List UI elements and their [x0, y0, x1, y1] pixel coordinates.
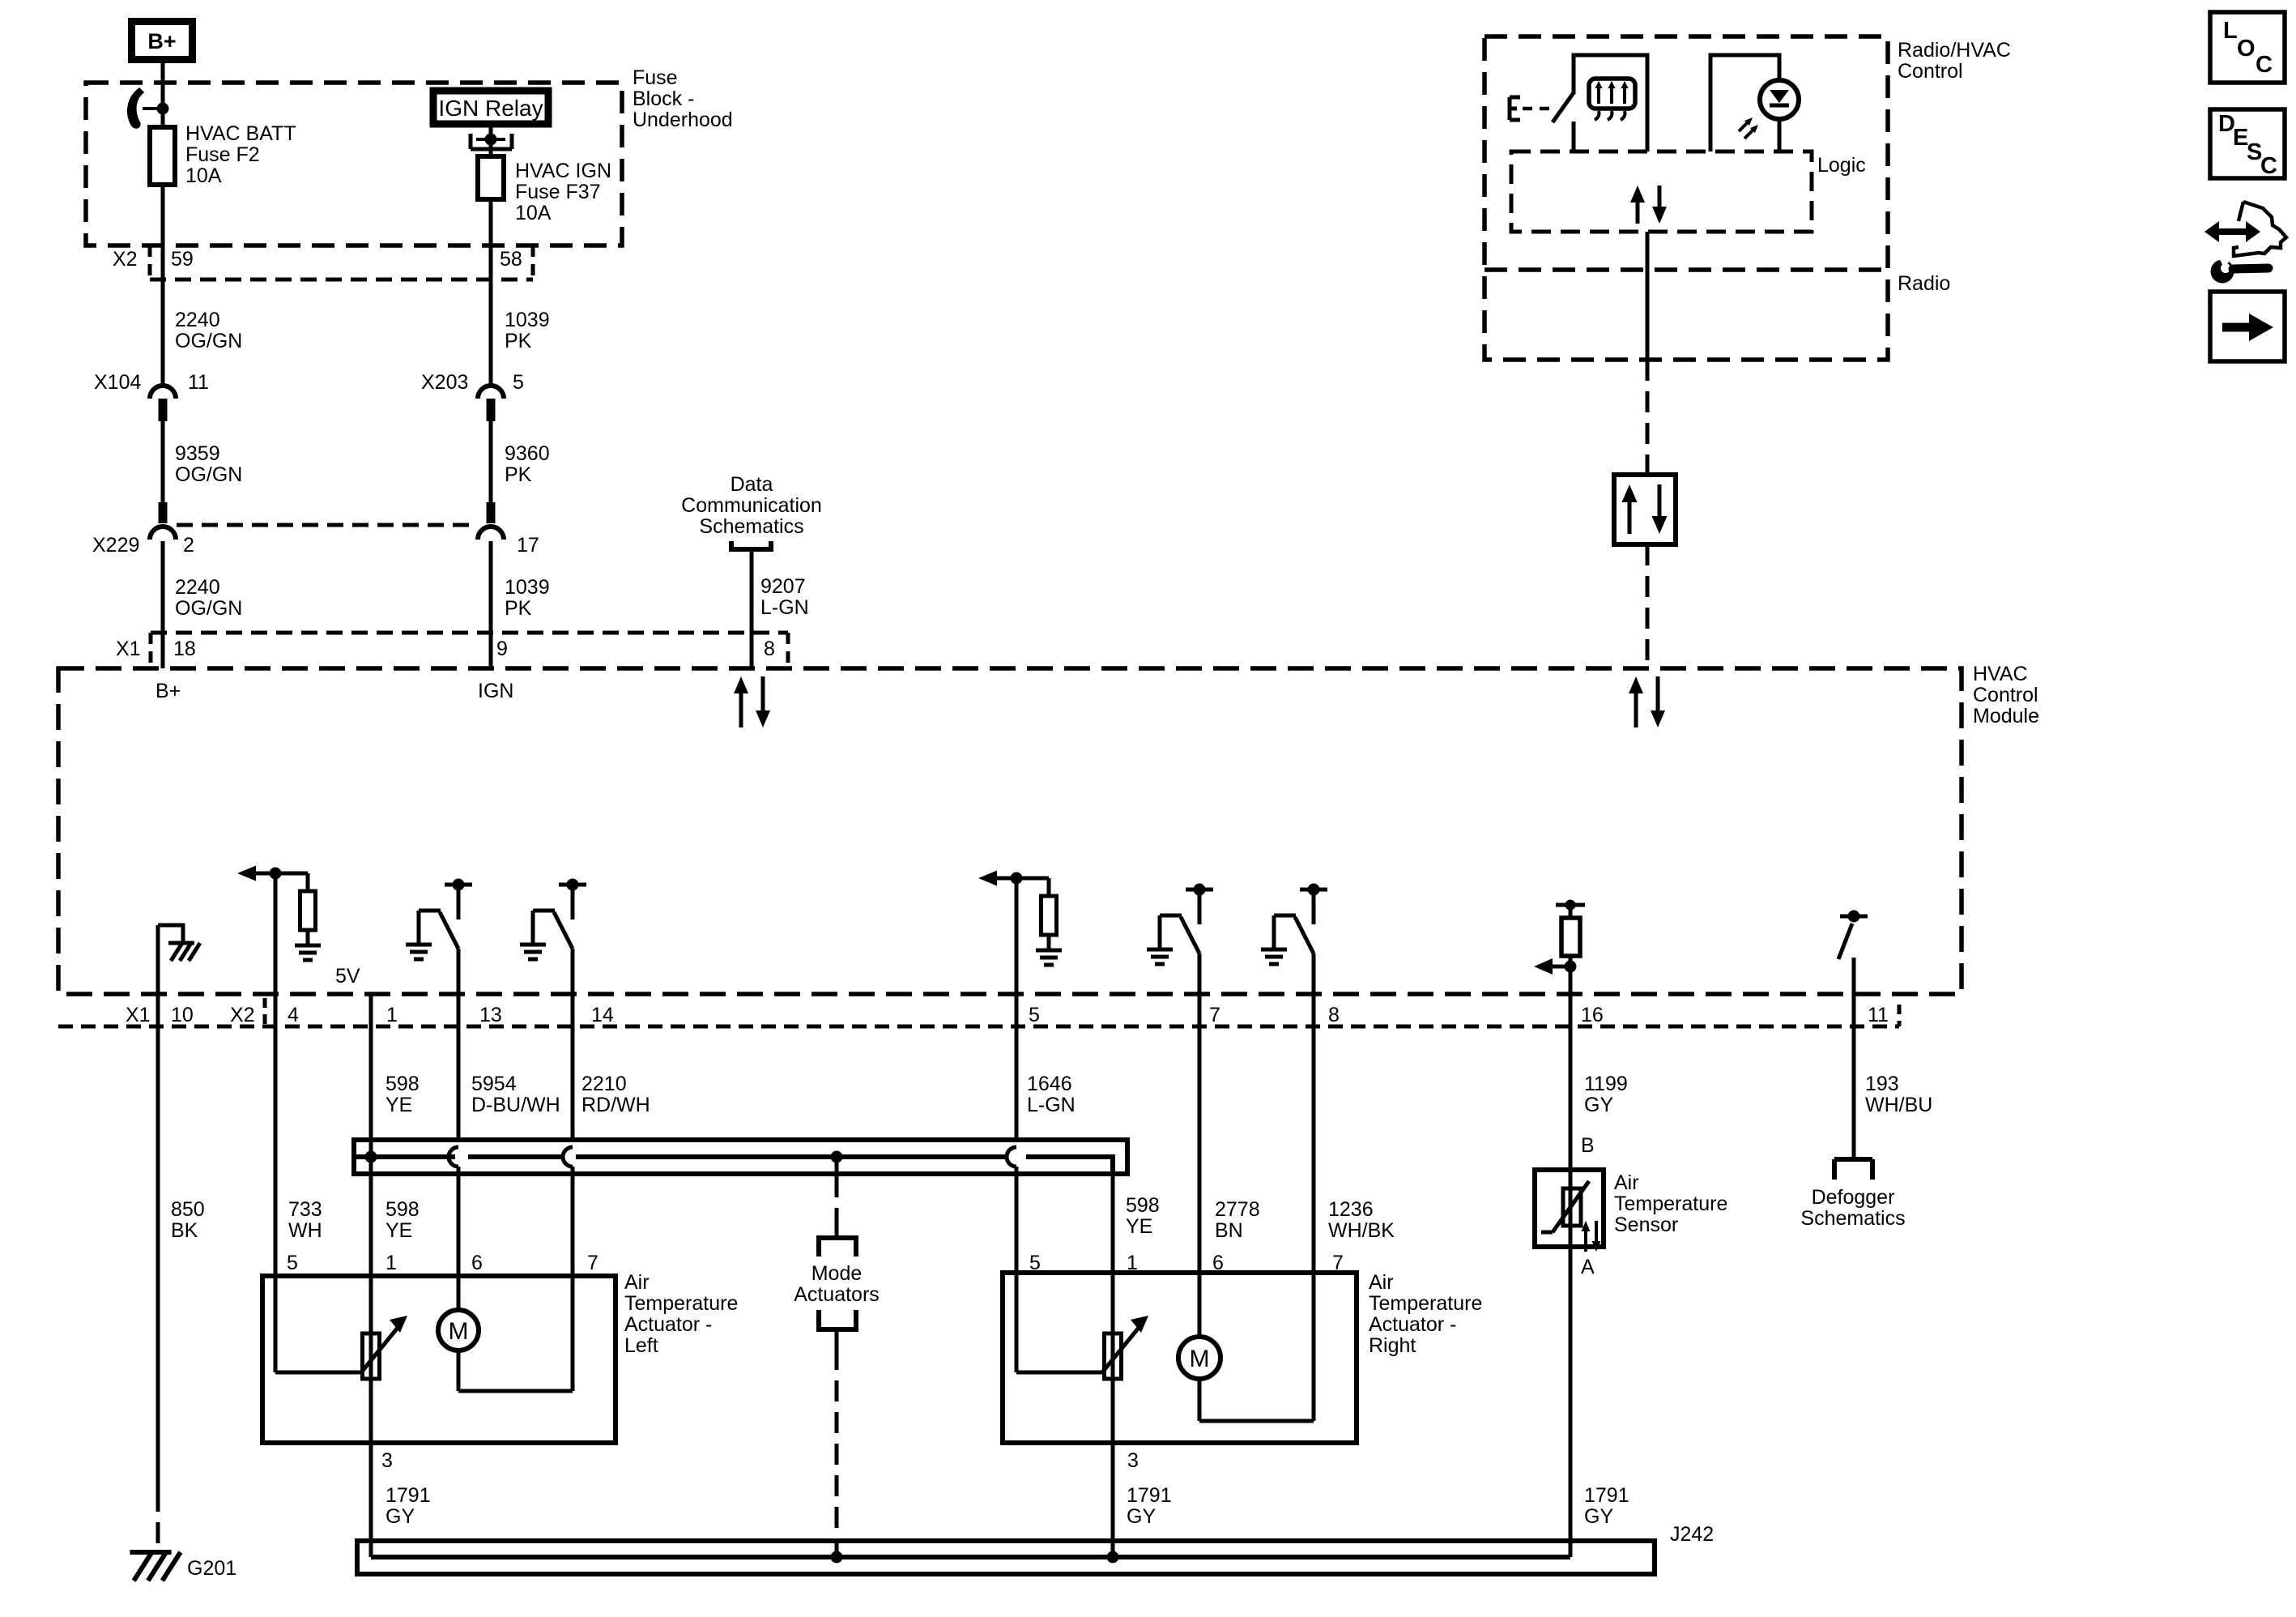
svg-text:L-GN: L-GN — [1027, 1094, 1076, 1116]
svg-text:18: 18 — [173, 638, 196, 660]
svg-text:OG/GN: OG/GN — [175, 463, 242, 486]
svg-text:58: 58 — [500, 248, 522, 271]
svg-text:2210: 2210 — [581, 1073, 627, 1095]
svg-text:1: 1 — [386, 1252, 397, 1274]
svg-text:Communication: Communication — [681, 494, 822, 517]
svg-text:598: 598 — [386, 1073, 420, 1095]
svg-text:1199: 1199 — [1584, 1073, 1628, 1095]
svg-text:11: 11 — [188, 371, 209, 394]
svg-text:850: 850 — [171, 1198, 205, 1221]
svg-text:9360: 9360 — [505, 442, 550, 465]
svg-text:YE: YE — [386, 1094, 412, 1116]
svg-text:Sensor: Sensor — [1614, 1214, 1678, 1236]
svg-text:X2: X2 — [230, 1004, 255, 1026]
svg-text:G201: G201 — [187, 1557, 236, 1580]
svg-text:1: 1 — [386, 1004, 398, 1026]
svg-text:2: 2 — [183, 534, 194, 557]
svg-text:OG/GN: OG/GN — [175, 330, 242, 352]
svg-text:2240: 2240 — [175, 576, 220, 599]
svg-text:Temperature: Temperature — [1614, 1192, 1727, 1215]
svg-text:16: 16 — [1581, 1004, 1604, 1026]
svg-text:A: A — [1581, 1256, 1595, 1278]
svg-text:8: 8 — [764, 638, 775, 660]
svg-text:Air: Air — [1614, 1171, 1639, 1194]
svg-text:D-BU/WH: D-BU/WH — [471, 1094, 560, 1116]
svg-text:GY: GY — [1584, 1094, 1613, 1116]
svg-text:Fuse F37: Fuse F37 — [515, 181, 601, 203]
svg-text:Control: Control — [1973, 684, 2038, 706]
svg-text:733: 733 — [288, 1198, 322, 1221]
svg-text:Module: Module — [1973, 705, 2039, 727]
svg-text:1791: 1791 — [1127, 1484, 1172, 1507]
svg-text:Fuse F2: Fuse F2 — [185, 143, 260, 166]
svg-text:5: 5 — [1029, 1004, 1040, 1026]
svg-text:9359: 9359 — [175, 442, 220, 465]
svg-text:11: 11 — [1868, 1004, 1889, 1026]
svg-text:WH/BU: WH/BU — [1865, 1094, 1932, 1116]
svg-text:HVAC IGN: HVAC IGN — [515, 160, 611, 182]
svg-text:GY: GY — [1127, 1505, 1156, 1528]
svg-text:GY: GY — [1584, 1505, 1613, 1528]
svg-text:B+: B+ — [155, 680, 181, 702]
svg-text:5V: 5V — [335, 965, 360, 988]
svg-text:4: 4 — [288, 1004, 299, 1026]
svg-text:5: 5 — [287, 1252, 298, 1274]
svg-text:7: 7 — [1209, 1004, 1220, 1026]
svg-text:L-GN: L-GN — [760, 596, 809, 619]
svg-text:M: M — [449, 1318, 469, 1345]
svg-text:X104: X104 — [94, 371, 141, 394]
svg-text:Temperature: Temperature — [624, 1292, 738, 1315]
svg-text:10A: 10A — [515, 202, 552, 224]
svg-text:5954: 5954 — [471, 1073, 517, 1095]
svg-text:Mode: Mode — [811, 1262, 863, 1285]
svg-text:7: 7 — [587, 1252, 598, 1274]
svg-text:6: 6 — [471, 1252, 483, 1274]
svg-text:HVAC BATT: HVAC BATT — [185, 122, 296, 145]
svg-text:PK: PK — [505, 597, 532, 620]
svg-text:Logic: Logic — [1817, 154, 1866, 177]
svg-text:YE: YE — [1126, 1215, 1152, 1238]
svg-text:Underhood: Underhood — [633, 109, 733, 131]
svg-text:Air: Air — [1369, 1271, 1394, 1294]
svg-text:3: 3 — [1127, 1449, 1139, 1472]
svg-text:O: O — [2237, 36, 2256, 62]
svg-text:5: 5 — [513, 371, 524, 394]
svg-text:IGN: IGN — [478, 680, 513, 702]
svg-text:YE: YE — [386, 1219, 412, 1242]
svg-text:59: 59 — [171, 248, 194, 271]
svg-text:14: 14 — [591, 1004, 614, 1026]
svg-text:193: 193 — [1865, 1073, 1899, 1095]
svg-text:Actuators: Actuators — [794, 1283, 880, 1306]
svg-text:WH/BK: WH/BK — [1328, 1219, 1395, 1242]
svg-text:C: C — [2256, 52, 2273, 78]
svg-text:1791: 1791 — [1584, 1484, 1629, 1507]
svg-text:2778: 2778 — [1215, 1198, 1260, 1221]
svg-text:17: 17 — [517, 534, 539, 557]
svg-text:10A: 10A — [185, 164, 222, 187]
svg-text:Schematics: Schematics — [1800, 1207, 1905, 1230]
svg-text:Schematics: Schematics — [699, 515, 803, 538]
svg-text:10: 10 — [171, 1004, 194, 1026]
svg-text:X1: X1 — [126, 1004, 151, 1026]
svg-text:Actuator -: Actuator - — [624, 1313, 712, 1336]
svg-text:RD/WH: RD/WH — [581, 1094, 650, 1116]
svg-text:BN: BN — [1215, 1219, 1243, 1242]
svg-text:J242: J242 — [1670, 1523, 1714, 1546]
svg-text:GY: GY — [386, 1505, 415, 1528]
svg-text:L: L — [2223, 18, 2238, 44]
svg-text:Control: Control — [1898, 60, 1963, 83]
svg-text:B+: B+ — [147, 29, 176, 53]
svg-text:598: 598 — [386, 1198, 420, 1221]
svg-text:1646: 1646 — [1027, 1073, 1072, 1095]
svg-text:9: 9 — [496, 638, 508, 660]
svg-text:Actuator -: Actuator - — [1369, 1313, 1456, 1336]
svg-text:Left: Left — [624, 1334, 658, 1357]
svg-text:B: B — [1581, 1134, 1595, 1157]
svg-text:BK: BK — [171, 1219, 198, 1242]
svg-text:IGN Relay: IGN Relay — [438, 96, 543, 121]
svg-text:1236: 1236 — [1328, 1198, 1374, 1221]
svg-text:Right: Right — [1369, 1334, 1416, 1357]
svg-text:X203: X203 — [421, 371, 468, 394]
svg-text:3: 3 — [381, 1449, 393, 1472]
svg-text:X229: X229 — [92, 534, 139, 557]
svg-text:X2: X2 — [113, 248, 138, 271]
svg-text:8: 8 — [1328, 1004, 1340, 1026]
svg-text:PK: PK — [505, 330, 532, 352]
svg-text:WH: WH — [288, 1219, 322, 1242]
svg-text:1039: 1039 — [505, 576, 550, 599]
svg-text:PK: PK — [505, 463, 532, 486]
svg-text:Defogger: Defogger — [1812, 1186, 1895, 1209]
svg-text:Block -: Block - — [633, 87, 694, 110]
svg-text:Radio/HVAC: Radio/HVAC — [1898, 39, 2011, 62]
svg-text:1039: 1039 — [505, 309, 550, 331]
svg-text:2240: 2240 — [175, 309, 220, 331]
svg-text:13: 13 — [479, 1004, 502, 1026]
svg-text:Radio: Radio — [1898, 272, 1950, 295]
svg-text:Air: Air — [624, 1271, 650, 1294]
svg-text:M: M — [1190, 1346, 1210, 1372]
svg-text:X1: X1 — [116, 638, 141, 660]
svg-text:Fuse: Fuse — [633, 66, 678, 89]
svg-text:OG/GN: OG/GN — [175, 597, 242, 620]
svg-text:9207: 9207 — [760, 575, 806, 598]
svg-text:Temperature: Temperature — [1369, 1292, 1482, 1315]
svg-text:1791: 1791 — [386, 1484, 431, 1507]
svg-text:598: 598 — [1126, 1194, 1160, 1217]
svg-text:Data: Data — [731, 473, 773, 496]
svg-text:HVAC: HVAC — [1973, 663, 2028, 685]
svg-text:C: C — [2260, 153, 2277, 179]
